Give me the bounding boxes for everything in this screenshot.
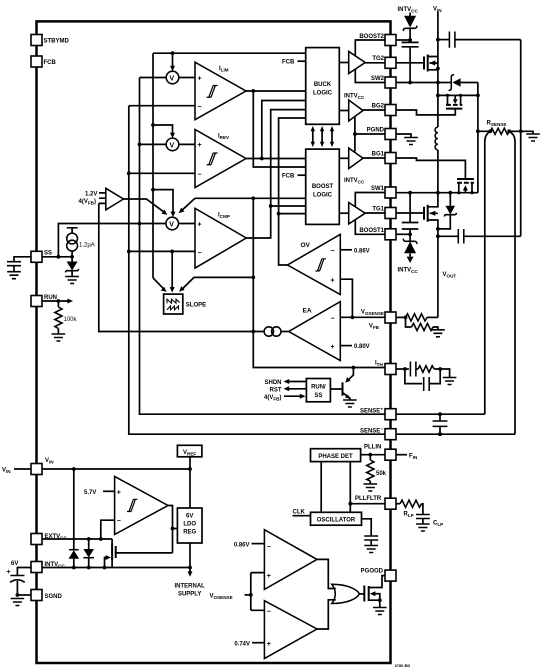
wire 4(VFB) input arrow (264, 394, 305, 402)
junction EXTVCC comparator tap (99, 537, 103, 541)
svg-text:TG2: TG2 (372, 56, 384, 62)
junction BOOST1 (408, 232, 412, 236)
wire ILIM minus input (129, 105, 195, 107)
svg-text:RUN: RUN (44, 295, 57, 301)
svg-text:VREF: VREF (183, 450, 196, 457)
wire ITH feedback to mux input (99, 203, 264, 331)
junction VIN input cap (436, 38, 440, 42)
svg-text:+: + (198, 221, 202, 228)
wire RUN pin arrow (42, 299, 73, 304)
svg-text:6V: 6V (186, 514, 193, 520)
diode schottky INTVCC to BOOST1 (398, 234, 419, 274)
wire IREV plus input (140, 143, 196, 145)
pin SW1 pad (371, 186, 396, 198)
junction SW1 schottky D (448, 191, 452, 195)
wire EXTVCC rail (42, 538, 112, 540)
svg-text:−: − (117, 518, 121, 525)
compensation network ITH series RC (405, 362, 457, 385)
junction ITH line riser (251, 196, 255, 200)
junction top bus / ILIM V feed (171, 51, 175, 55)
capacitor SS to ground (7, 257, 31, 279)
svg-text:LOGIC: LOGIC (313, 193, 333, 199)
chip outline IC boundary (37, 21, 391, 663)
net SW2 node vertical (437, 58, 439, 128)
svg-text:SW2: SW2 (371, 76, 385, 82)
V source IREV (166, 138, 179, 151)
wire IREV minus input (129, 172, 195, 174)
svg-text:LOGIC: LOGIC (313, 91, 333, 97)
wire RST output arrow (270, 386, 307, 393)
capacitor CIN input (438, 32, 521, 48)
pin ITH pad (375, 361, 396, 375)
wire BOOST2 to TG2 driver (355, 40, 385, 55)
junction SENSE- bus IREV (127, 171, 131, 175)
junction EA output ITH riser (251, 330, 255, 334)
comparator OV (288, 234, 341, 294)
capacitor COUT output (438, 229, 521, 244)
junction SW1 bootstrap1 (408, 191, 412, 195)
wire PHASE DET to OSC right (349, 462, 351, 513)
svg-text:INTERNAL: INTERNAL (175, 584, 206, 590)
junction INTVCC diode EXTVCC (87, 566, 91, 570)
block VREF (177, 445, 202, 457)
svg-text:VIN: VIN (2, 468, 11, 475)
junction M2 source SW2 (436, 67, 440, 71)
block SLOPE (164, 294, 207, 314)
wire slope feed diagonal arrow (153, 278, 167, 292)
wire comparator to LDO REG (173, 528, 178, 530)
V source ICMP (166, 217, 179, 230)
svg-text:−: − (267, 544, 271, 551)
transistor switch B BG2 (397, 95, 478, 115)
supply INTVCC bootstrap2 arrow (398, 7, 419, 16)
wire window input bracket (251, 573, 265, 611)
wire VIN rail (42, 468, 190, 470)
junction switch C leads (457, 191, 460, 194)
driver TG1 (339, 203, 385, 225)
svg-text:CLP: CLP (433, 521, 443, 528)
pin EXTVCC pad (31, 534, 67, 545)
wire upper comparator to gate (317, 559, 336, 588)
svg-text:CLK: CLK (293, 510, 306, 516)
junction INTVCC diode VIN (72, 566, 76, 570)
mux 1.2V 4(VFB) clamp buffer (79, 188, 124, 210)
svg-text:4(VFB): 4(VFB) (264, 395, 281, 402)
svg-text:4(VFB): 4(VFB) (79, 199, 96, 206)
svg-text:VOSENSE: VOSENSE (210, 594, 233, 601)
wire CIN ground riser (520, 40, 522, 237)
junction VOSENSE OV tap (351, 315, 355, 319)
comparator PGOOD upper 0.86V (264, 530, 317, 590)
pin BOOST2 pad (359, 34, 396, 46)
junction IREV V tap (151, 123, 155, 127)
capacitor OSC timing (362, 519, 379, 553)
junction RSENSE kelvin left (488, 129, 492, 133)
driver TG2 (339, 52, 385, 74)
svg-text:ITH: ITH (375, 361, 383, 368)
wire ILIM plus input (140, 77, 196, 79)
wire 0.74V input (234, 641, 264, 647)
diode schottky INTVCC to BOOST2 (403, 16, 417, 40)
wire VREF to LDO riser (189, 457, 191, 508)
wire FCB input BUCK (282, 59, 306, 65)
junction VOSENSE window bracket (249, 593, 253, 597)
junction ICMP output BOOST tap (269, 204, 273, 208)
svg-text:SENSE+: SENSE+ (360, 407, 383, 415)
transistor switch C BG1 (397, 158, 474, 193)
junction SENSE+ filter cap (438, 412, 442, 416)
wire kelvin SENSE- (509, 131, 515, 434)
svg-text:PGND: PGND (367, 128, 385, 134)
svg-text:1.2µA: 1.2µA (79, 243, 95, 249)
resistor RSENSE (478, 121, 533, 135)
svg-text:RLP: RLP (404, 512, 414, 519)
pin SENSE+ pad (360, 407, 396, 420)
svg-text:SENSE−: SENSE− (360, 427, 383, 435)
junction OV output BOOST tap (277, 212, 281, 216)
transistor Q1 ITH discharge NPN (330, 368, 356, 408)
capacitor INTVCC 6V bypass (7, 561, 32, 595)
junction RUN resistor (57, 299, 61, 303)
wire OV plus to VOSENSE (340, 279, 352, 317)
svg-text:SS: SS (44, 250, 52, 256)
pin FCB pad (31, 56, 56, 67)
pin PLLIN pad (385, 449, 396, 460)
junction SGND filter cap (16, 593, 20, 597)
comparator PGOOD lower 0.74V (264, 601, 317, 659)
ground SGND (11, 599, 25, 606)
junction RSENSE ground cap (519, 129, 523, 133)
junction ITH discharge transistor (352, 366, 356, 370)
wire CLK input (293, 510, 311, 516)
transistor EXTVCC PMOS switch (105, 539, 173, 568)
wire ICMP V feed arrow (153, 190, 176, 217)
block PHASE DET (311, 449, 361, 462)
svg-text:VIN: VIN (45, 458, 54, 465)
svg-text:+: + (331, 278, 335, 285)
svg-text:INTVCC: INTVCC (398, 7, 419, 14)
junction ICMP V tap (151, 188, 155, 192)
pin SGND pad (31, 590, 63, 601)
wire IREV output to BOOST (246, 158, 306, 160)
wire driver ground bus to PGND (354, 117, 356, 152)
svg-text:INTVCC: INTVCC (344, 93, 365, 100)
wire SENSE- row right (397, 433, 516, 435)
capacitor ITH parallel (405, 369, 440, 391)
net SENSE+ bus (140, 78, 386, 415)
junction ITH network right (438, 367, 442, 371)
junction SW2 switch B (436, 94, 440, 98)
resistor feedback divider R2 to ground (406, 317, 445, 336)
svg-text:EA: EA (303, 308, 312, 315)
capacitor bootstrap CB1 (402, 193, 419, 235)
svg-text:FCB: FCB (44, 60, 57, 66)
svg-text:100k: 100k (64, 317, 78, 323)
wire SW1 row (397, 192, 478, 194)
svg-text:−: − (267, 609, 271, 616)
net power ground riser (477, 83, 479, 193)
svg-text:FCB: FCB (282, 173, 295, 179)
junction VOUT output cap (436, 234, 440, 238)
pin VOSENSE VFB pad (361, 310, 396, 331)
wire IREV V feed arrow (153, 125, 175, 138)
junction VIN clamp diode (72, 467, 76, 471)
svg-text:+: + (198, 142, 202, 149)
gm output stage circles (264, 327, 289, 336)
ground RSENSE (526, 134, 540, 141)
svg-text:6V: 6V (11, 561, 18, 567)
pin PGND pad (367, 128, 396, 140)
pin SW2 pad (371, 76, 396, 88)
junction SENSE- filter cap (438, 432, 442, 436)
wire SW2 to TG2 driver (355, 70, 385, 83)
diode schottky switch B (438, 75, 478, 91)
svg-text:−: − (198, 250, 202, 257)
wire ICMP minus input (129, 250, 195, 252)
svg-text:+: + (117, 489, 121, 496)
pin SENSE- pad (360, 427, 396, 440)
block BOOST LOGIC (306, 149, 340, 224)
wire OV output to BOOST (279, 213, 306, 215)
wire ILIM V feed arrow (170, 53, 175, 71)
junction RSENSE kelvin right (507, 129, 511, 133)
junction switch B leads (446, 94, 449, 97)
wire ITH slope compensation feed to slope arrow (179, 277, 253, 292)
junction PLLFLTR tap (348, 502, 352, 506)
junction VOUT schottky (436, 227, 440, 231)
svg-text:TG1: TG1 (372, 207, 384, 213)
block BUCK LOGIC (306, 48, 340, 125)
wire ITH diagonal to ICMP V arrow (179, 198, 195, 213)
driver BG1 (339, 148, 385, 169)
resistor feedback divider R1 (397, 314, 438, 321)
wire SENSE+ row right (397, 413, 485, 415)
svg-text:VFB: VFB (369, 324, 380, 331)
svg-text:ICMP: ICMP (218, 213, 230, 220)
wire VOSENSE window input (210, 594, 251, 601)
wire ICMP plus to SS (58, 224, 139, 257)
driver BG2 (339, 100, 385, 121)
wire 5.7V reference input (84, 490, 115, 496)
transistor M2 TG2 switch (397, 55, 438, 72)
svg-text:V: V (170, 142, 175, 149)
pin VIN pad (31, 458, 54, 475)
resistor RLP (397, 500, 423, 518)
svg-text:BG1: BG1 (372, 152, 385, 158)
svg-text:IREV: IREV (218, 134, 230, 141)
svg-text:3780 BD: 3780 BD (395, 663, 411, 668)
resistor 100k RUN pulldown (52, 301, 78, 341)
capacitor bootstrap CB2 (402, 40, 419, 83)
ground PGND external (397, 134, 418, 145)
junction ICMP minus slope tap (170, 250, 174, 254)
svg-text:5.7V: 5.7V (84, 490, 96, 496)
comparator 5.7V EXTVCC (115, 476, 168, 534)
wire SGND pin (17, 594, 31, 596)
net ITH line to BOOST (195, 197, 306, 199)
resistor 50k PLLIN (364, 455, 387, 491)
pin TG2 pad (372, 56, 396, 68)
pin INTVCC pad (31, 562, 65, 573)
svg-text:+: + (7, 569, 11, 576)
junction VIN VREF riser (188, 467, 192, 471)
junction SW1 inductor (436, 191, 440, 195)
block OSCILLATOR (311, 512, 362, 525)
junction VFB divider (404, 316, 408, 320)
block RUN/SS (306, 379, 330, 402)
junction SENSE- bus ICMP (127, 250, 131, 254)
wire ICMP plus input (140, 223, 196, 225)
wire EA plus 0.80V (340, 344, 369, 350)
pin PGOOD pad (361, 569, 396, 582)
junction RSENSE left (476, 129, 480, 133)
svg-text:PLLFLTR: PLLFLTR (355, 496, 382, 502)
svg-text:BOOST: BOOST (312, 184, 334, 190)
wire ITH row (253, 332, 385, 368)
svg-text:VOUT: VOUT (443, 272, 457, 279)
wire SW1 to TG1 driver (355, 193, 385, 208)
wire SHDN output arrow (264, 379, 306, 386)
pin SS pad (31, 250, 52, 262)
svg-text:BOOST2: BOOST2 (359, 34, 384, 40)
wire top bus into BUCK LOGIC (153, 52, 306, 54)
net VOUT vertical (438, 229, 457, 318)
diode EXTVCC to INTVCC (83, 539, 94, 568)
svg-text:0.86V: 0.86V (354, 248, 370, 254)
pin PLLFLTR pad (385, 498, 396, 509)
svg-text:−: − (198, 104, 202, 111)
svg-text:PHASE DET: PHASE DET (318, 454, 353, 460)
wire LDO output to INTVCC rail (189, 543, 191, 568)
pin BG2 pad (372, 104, 396, 116)
junction SW2 node (436, 81, 440, 85)
svg-text:FIN: FIN (409, 454, 418, 461)
bus arrows between BUCK and BOOST logic (311, 126, 335, 147)
svg-text:PLLIN: PLLIN (364, 445, 381, 451)
svg-text:0.86V: 0.86V (234, 542, 250, 548)
wire ICMP output riser (246, 110, 305, 238)
wire ITH pin (397, 368, 405, 370)
comparator ILIM (195, 62, 246, 119)
svg-text:OV: OV (301, 242, 311, 249)
wire lower comparator to gate (317, 600, 336, 629)
pin STBYMD pad (31, 35, 70, 46)
diode VIN clamp (69, 469, 80, 568)
svg-text:SGND: SGND (45, 594, 63, 600)
svg-text:−: − (198, 172, 202, 179)
pin RUN pad (31, 295, 57, 307)
wire INTVCC rail (42, 567, 190, 569)
junction PGND tap (353, 132, 357, 136)
svg-text:STBYMD: STBYMD (44, 39, 70, 45)
wire FIN stub (397, 454, 418, 461)
wire SS pin (42, 256, 72, 258)
node VIN external label (2, 468, 31, 475)
wire 0.86V input (234, 542, 265, 548)
capacitor CLP (416, 515, 443, 532)
svg-text:REG: REG (183, 530, 196, 536)
svg-text:SHDN: SHDN (264, 380, 281, 386)
wire BOOST2 node (397, 39, 411, 41)
junction IREV output bus (260, 157, 264, 161)
svg-text:INTVCC: INTVCC (398, 268, 419, 275)
svg-text:RST: RST (270, 387, 282, 393)
svg-text:V: V (169, 221, 174, 228)
pin TG1 pad (372, 207, 396, 219)
svg-text:50k: 50k (376, 471, 387, 477)
wire EA minus to VOSENSE pad (340, 316, 385, 318)
wire PHASE DET to OSC left (320, 462, 322, 513)
svg-text:RUN/: RUN/ (311, 385, 326, 391)
junction PLLIN 50k (368, 453, 372, 457)
wire inductor to SW1 (437, 150, 439, 193)
svg-text:−: − (331, 316, 335, 323)
wire ILIM output to BOOST (253, 91, 305, 167)
svg-text:−: − (331, 248, 335, 255)
V source ILIM (166, 71, 179, 84)
junction ILIM output bus (251, 89, 255, 93)
wire internal supply arrow (175, 568, 206, 598)
svg-text:SS: SS (314, 393, 322, 399)
svg-text:BOOST1: BOOST1 (359, 228, 384, 234)
diode schottky switch D freewheel (438, 193, 457, 229)
comparator ICMP (195, 208, 246, 268)
zener diode SS clamp (65, 257, 79, 284)
svg-text:SW1: SW1 (371, 186, 385, 192)
wire BOOST1 node (397, 233, 411, 235)
svg-text:0.74V: 0.74V (234, 641, 250, 647)
svg-text:OSCILLATOR: OSCILLATOR (317, 518, 356, 524)
wire ILIM output to BUCK (246, 90, 306, 92)
wire IREV output to BUCK (262, 101, 306, 159)
junction riser switch B (476, 94, 480, 98)
wire OV minus 0.86V (340, 248, 369, 254)
wire comparator minus EXTVCC sense (101, 520, 115, 539)
svg-text:PGOOD: PGOOD (361, 569, 384, 575)
comparator IREV (195, 129, 246, 187)
pin BOOST1 pad (359, 228, 396, 240)
pin BG1 pad (372, 152, 396, 164)
svg-text:SLOPE: SLOPE (186, 303, 206, 309)
svg-text:ILIM: ILIM (219, 66, 229, 73)
node VIN top (433, 7, 442, 58)
svg-text:RSENSE: RSENSE (487, 121, 507, 128)
wire ITH riser to EA output (252, 198, 254, 331)
junction EXTVCC diode (87, 537, 91, 541)
svg-text:SUPPLY: SUPPLY (178, 592, 201, 598)
svg-text:LDO: LDO (183, 522, 196, 528)
net SENSE- bus (129, 106, 385, 435)
wire kelvin SENSE+ (485, 131, 491, 414)
svg-text:BUCK: BUCK (314, 82, 332, 88)
wire FCB input BOOST (282, 173, 306, 179)
junction LDO enable tap (171, 527, 175, 531)
wire ICMP minus to slope arrow (170, 251, 175, 292)
junction SS bus (57, 255, 61, 259)
block 6V LDO REG (177, 508, 202, 543)
wire 5.7V comparator output to gate (168, 506, 173, 553)
junction SENSE+ bus ICMP (138, 222, 142, 226)
junction INTVCC internal supply (188, 566, 192, 570)
transistor PGOOD NMOS open drain (359, 576, 386, 615)
junction SENSE+ bus IREV (138, 143, 142, 147)
wire OV output riser (279, 118, 306, 265)
inductor L1 (435, 127, 438, 150)
svg-text:0.80V: 0.80V (354, 344, 370, 350)
wire ICMP output to BOOST (271, 205, 306, 207)
wire BOOST1 to TG1 driver (355, 220, 385, 235)
wire SW2 row (397, 82, 438, 84)
